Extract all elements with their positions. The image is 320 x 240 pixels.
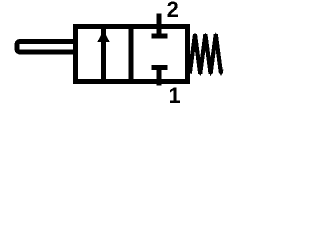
port 1 stub (blocked) [157,68,162,86]
arrowhead [97,31,109,43]
port 1 crossbar [152,65,168,70]
port 2 stub (blocked) [157,14,162,37]
label port 1 [170,88,180,103]
wire: arrow shaft (left box flow path) [101,28,106,81]
divider between position boxes [129,24,134,84]
valve body outline (two position boxes) [76,27,188,82]
port 2 crossbar [152,34,168,39]
return spring [190,35,221,74]
2/2-way pneumatic valve, plunger actuated, spring return [0,0,236,118]
plunger / pin actuator (outlined rod with rounded cap) [17,42,75,53]
label port 2 [167,2,178,17]
spring apex points [192,33,197,38]
